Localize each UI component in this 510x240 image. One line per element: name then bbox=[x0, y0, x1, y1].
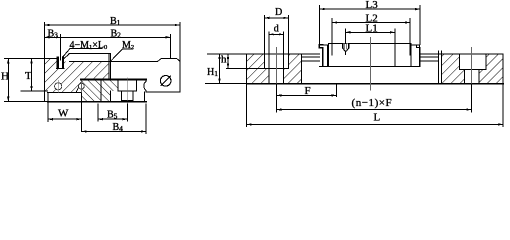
block top-left shoulder bbox=[44, 57, 56, 59]
svg-text:(n−1)×F: (n−1)×F bbox=[352, 97, 393, 109]
d dimension bbox=[269, 32, 283, 69]
bolt bottom bbox=[122, 100, 133, 102]
L2 dimension bbox=[332, 19, 410, 56]
h dimension bbox=[208, 53, 247, 55]
svg-text:L3: L3 bbox=[366, 0, 379, 11]
B5 dimension bbox=[97, 104, 99, 121]
B3 extension bbox=[59, 35, 61, 57]
top plate bottom line bbox=[70, 61, 111, 63]
svg-text:B1: B1 bbox=[110, 16, 121, 27]
(n-1)xF dimension bbox=[470, 84, 472, 112]
hole n centerline bbox=[471, 48, 473, 85]
rail left side bbox=[47, 92, 49, 101]
B4 dimension bbox=[145, 104, 147, 134]
hole n outline bbox=[460, 54, 486, 70]
counterbore hole n white bbox=[460, 54, 486, 69]
rail right end section hatch bbox=[442, 54, 503, 84]
V-notch interface flanks bbox=[76, 81, 88, 92]
hole 1 centerline bbox=[275, 48, 277, 85]
svg-text:W: W bbox=[58, 108, 69, 120]
counterbore hole 1 white bbox=[264, 54, 288, 68]
lower piece right edge with notch bbox=[144, 80, 146, 102]
block outline left edge bbox=[43, 58, 45, 101]
rail side groove lines right bbox=[420, 57, 439, 61]
bolt centerline bbox=[126, 78, 128, 104]
chamfer to top plate bbox=[64, 54, 69, 59]
carriage bottom bbox=[319, 65, 419, 67]
svg-text:D: D bbox=[275, 7, 282, 18]
rail bottom line bbox=[247, 83, 503, 85]
svg-text:T: T bbox=[25, 70, 32, 82]
top plate top line bbox=[69, 53, 110, 55]
W dimension bbox=[47, 102, 49, 122]
tab hole circle with slash bbox=[160, 76, 171, 87]
L3 dimension bbox=[320, 6, 421, 45]
T dimension bbox=[31, 58, 33, 91]
rail side groove lines left bbox=[302, 57, 320, 61]
B2 dimension line bbox=[44, 36, 170, 38]
ball circle 1 (return bore) bbox=[55, 83, 62, 90]
rail bottom line (with H extension) bbox=[5, 101, 48, 103]
svg-text:h: h bbox=[221, 54, 227, 66]
svg-text:H1: H1 bbox=[207, 67, 218, 78]
svg-text:d: d bbox=[274, 24, 279, 35]
block bottom line left bbox=[48, 91, 81, 93]
svg-text:L1: L1 bbox=[366, 23, 378, 35]
svg-text:B2: B2 bbox=[111, 28, 122, 39]
carriage centerline bbox=[369, 38, 371, 91]
lower piece bottom line bbox=[48, 101, 146, 103]
rail left end section outline bbox=[247, 54, 302, 84]
H dimension bbox=[5, 57, 48, 59]
lower piece top surface bbox=[81, 79, 146, 81]
hole 1 outline bbox=[264, 54, 288, 69]
ball circle 2 bbox=[79, 83, 85, 89]
D dimension bbox=[264, 16, 288, 54]
H1 dimension bbox=[206, 83, 247, 85]
lower piece seam line bbox=[100, 80, 102, 102]
svg-text:H: H bbox=[1, 71, 9, 83]
L dimension bbox=[247, 84, 503, 127]
block upper hatch region bbox=[44, 58, 109, 92]
bolt head cavity bbox=[118, 80, 136, 91]
svg-text:B3: B3 bbox=[48, 28, 59, 39]
ball 2 centerline bbox=[81, 80, 83, 92]
svg-text:4−M1×L0: 4−M1×L0 bbox=[70, 40, 108, 51]
B1 dimension line bbox=[44, 24, 180, 26]
rail left end section hatch bbox=[247, 54, 302, 84]
M2 leader bbox=[111, 49, 133, 61]
block right edge bbox=[109, 54, 111, 80]
F dimension bbox=[336, 84, 338, 97]
grease nipple bbox=[343, 43, 348, 48]
tapped hole M1xL0 bbox=[59, 57, 63, 69]
svg-text:B5: B5 bbox=[107, 110, 118, 121]
bolt shank cavity bbox=[122, 91, 133, 101]
ball centerlines bbox=[57, 81, 59, 93]
rail top line bbox=[247, 53, 503, 55]
lower piece hatch bbox=[81, 80, 118, 101]
right section boundary double line bbox=[438, 51, 441, 84]
carriage outline bbox=[319, 45, 322, 67]
lower piece pocket wall bbox=[110, 91, 112, 101]
L1 dimension bbox=[346, 29, 395, 66]
4-M1xL0 leader bbox=[62, 49, 102, 58]
svg-text:L: L bbox=[374, 112, 381, 124]
svg-text:F: F bbox=[305, 85, 311, 97]
rail right edge bbox=[502, 54, 504, 84]
tab outline bbox=[110, 58, 179, 92]
svg-text:B4: B4 bbox=[113, 122, 124, 133]
